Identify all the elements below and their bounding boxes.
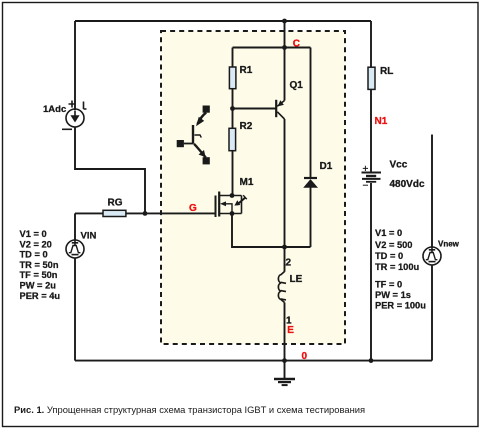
svg-text:PER = 4u: PER = 4u	[20, 291, 61, 301]
svg-text:RL: RL	[380, 66, 393, 77]
svg-text:R1: R1	[240, 65, 253, 76]
svg-text:TF = 50n: TF = 50n	[20, 270, 58, 280]
svg-text:N1: N1	[375, 116, 388, 127]
svg-text:PW = 1s: PW = 1s	[375, 290, 411, 300]
svg-text:Vnew: Vnew	[438, 240, 460, 249]
svg-text:TF = 0: TF = 0	[375, 280, 402, 290]
svg-text:E: E	[287, 325, 294, 336]
svg-text:Рис. 1. Упрощенная структурная: Рис. 1. Упрощенная структурная схема тра…	[14, 404, 365, 415]
svg-text:PER = 100u: PER = 100u	[375, 301, 426, 311]
svg-text:V1 = 0: V1 = 0	[20, 229, 47, 239]
svg-text:VIN: VIN	[81, 231, 97, 242]
svg-text:1Adc: 1Adc	[43, 104, 66, 115]
svg-text:PW = 2u: PW = 2u	[20, 281, 57, 291]
svg-text:TR = 100u: TR = 100u	[375, 262, 419, 272]
svg-text:V2 = 500: V2 = 500	[375, 240, 412, 250]
svg-text:V2 = 20: V2 = 20	[20, 239, 52, 249]
svg-text:0: 0	[302, 351, 308, 362]
svg-text:R2: R2	[240, 121, 253, 132]
svg-text:TD = 0: TD = 0	[375, 251, 403, 261]
svg-text:LE: LE	[290, 274, 303, 285]
svg-text:RG: RG	[108, 198, 123, 209]
svg-text:2: 2	[286, 257, 292, 268]
svg-text:480Vdc: 480Vdc	[390, 179, 425, 190]
svg-text:TR = 50n: TR = 50n	[20, 260, 59, 270]
svg-text:M1: M1	[240, 177, 254, 188]
svg-text:G: G	[189, 203, 197, 214]
svg-text:V1 = 0: V1 = 0	[375, 228, 402, 238]
svg-text:D1: D1	[320, 161, 333, 172]
svg-text:C: C	[293, 38, 300, 49]
svg-text:Vcc: Vcc	[390, 160, 408, 171]
svg-text:TD = 0: TD = 0	[20, 250, 48, 260]
svg-text:Q1: Q1	[290, 80, 304, 91]
